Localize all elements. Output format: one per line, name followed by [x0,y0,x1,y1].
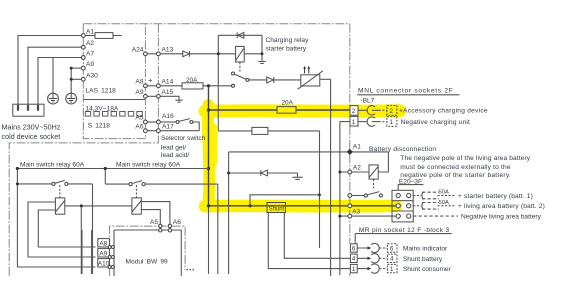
svg-text:A8: A8 [135,79,143,86]
svg-text:6: 6 [352,245,356,252]
svg-text:-BL7: -BL7 [360,97,374,104]
svg-text:4: 4 [390,256,394,263]
svg-text:S 1218: S 1218 [88,122,111,129]
svg-text:A16: A16 [162,113,174,120]
svg-text:LAS 1218: LAS 1218 [86,87,117,94]
svg-text:+: + [148,76,153,85]
svg-text:A13: A13 [162,46,174,53]
svg-text:2: 2 [352,108,356,115]
svg-text:A9: A9 [99,250,107,257]
svg-text:A5: A5 [135,115,143,122]
svg-text:A3: A3 [352,208,360,215]
svg-text:Modul BW 99: Modul BW 99 [126,259,169,266]
svg-text:1: 1 [389,119,393,126]
svg-text:4: 4 [352,256,356,263]
svg-text:A1: A1 [86,29,94,36]
svg-text:A15: A15 [162,89,174,96]
svg-text:1: 1 [352,119,356,126]
svg-text:Negative charging unit: Negative charging unit [401,119,471,126]
svg-text:MNL connector sockets 2F: MNL connector sockets 2F [358,88,453,95]
svg-text:cold device socket: cold device socket [2,132,61,141]
svg-text:A5: A5 [150,219,158,226]
svg-text:Shunt battery: Shunt battery [403,256,443,263]
svg-text:must be connected externally t: must be connected externally to the [400,164,511,171]
svg-text:A24: A24 [132,47,144,54]
svg-text:A9: A9 [135,89,143,96]
svg-text:A6: A6 [173,219,181,226]
svg-text:The negative pole of the livin: The negative pole of the living area bat… [400,155,530,162]
svg-text:50A: 50A [439,200,449,206]
svg-text:lead gel/: lead gel/ [161,144,186,151]
svg-text:A2: A2 [86,40,94,47]
svg-text:starter battery: starter battery [266,46,307,53]
svg-text:A1: A1 [353,143,361,150]
svg-text:A2: A2 [353,165,361,172]
svg-text:14,3V~18A: 14,3V~18A [86,106,119,113]
svg-text:Shunt: Shunt [269,206,285,212]
svg-text:50A: 50A [439,190,449,196]
svg-text:A17: A17 [162,124,174,131]
svg-text:A7: A7 [86,51,94,58]
svg-text:Main switch relay 60A: Main switch relay 60A [20,162,85,169]
svg-text:lead acid/: lead acid/ [161,152,189,159]
svg-text:Negative living area battery: Negative living area battery [461,214,542,221]
svg-text:Shunt consumer: Shunt consumer [403,266,452,273]
svg-text:Main switch relay 60A: Main switch relay 60A [116,162,181,169]
svg-text:+Accessory charging device: +Accessory charging device [399,107,488,114]
svg-text:A14: A14 [162,79,174,86]
svg-text:20A: 20A [186,77,198,84]
svg-text:1: 1 [352,266,356,273]
svg-text:Mains indicator: Mains indicator [403,246,448,253]
svg-text:Charging relay: Charging relay [266,37,310,44]
svg-text:+ living area battery (batt. 2: + living area battery (batt. 2) [458,203,545,210]
svg-text:Selector switch: Selector switch [161,135,206,142]
svg-text:2: 2 [389,108,393,115]
svg-text:6: 6 [390,245,394,252]
svg-text:A9: A9 [86,61,94,68]
svg-text:1: 1 [390,266,394,273]
svg-text:A6: A6 [135,123,143,130]
svg-text:A8: A8 [99,240,107,247]
svg-text:+ starter battery (batt. 1): + starter battery (batt. 1) [458,193,533,200]
svg-text:MR pin socket 12 F -block 3: MR pin socket 12 F -block 3 [359,227,450,234]
svg-text:20A: 20A [282,100,294,107]
svg-text:Mains 230V~50Hz: Mains 230V~50Hz [2,122,61,131]
svg-text:A30: A30 [86,72,98,79]
